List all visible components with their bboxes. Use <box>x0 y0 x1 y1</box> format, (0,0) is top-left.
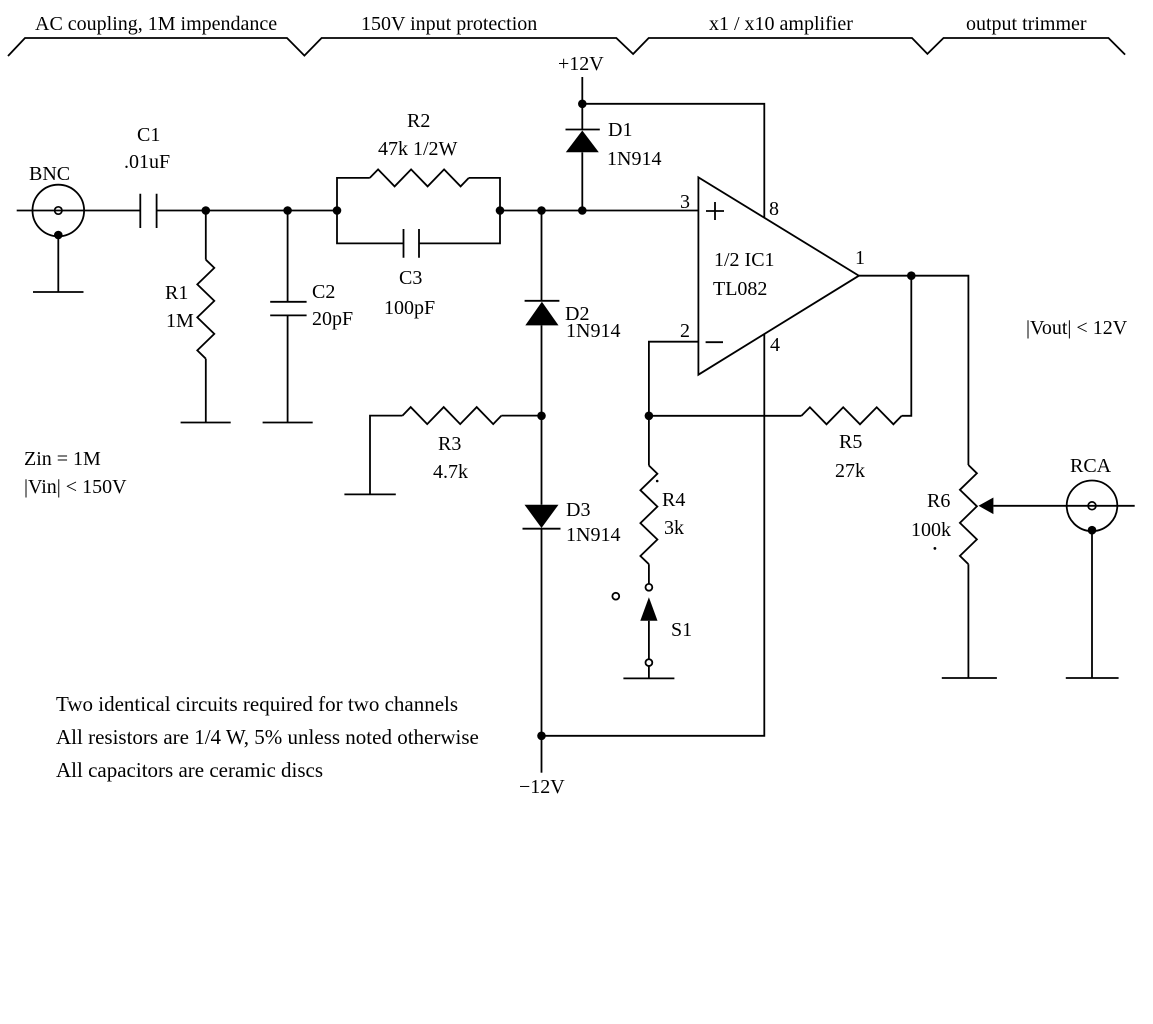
wire wiper to RCA <box>993 505 1134 507</box>
svg-text:−12V: −12V <box>519 776 565 798</box>
svg-text:R3: R3 <box>438 433 461 455</box>
BNC connector <box>33 185 85 240</box>
node H junction (pin2/R4/R5) <box>645 412 654 421</box>
switch S1 bottom contact <box>646 659 653 666</box>
wire D2 to node G <box>541 325 543 415</box>
svg-text:20pF: 20pF <box>312 308 353 330</box>
node G junction (D2/R3/D3) <box>537 412 546 421</box>
resistor R2 <box>370 169 469 186</box>
node B junction (C2 tap) <box>283 206 292 215</box>
wire C2 to ground <box>287 315 289 422</box>
wire node A down to R1 <box>205 211 207 260</box>
ground (S1) <box>623 677 674 679</box>
svg-text:4.7k: 4.7k <box>433 461 468 483</box>
resistor R6 (trimmer) <box>960 465 977 564</box>
svg-text:+12V: +12V <box>558 53 604 75</box>
svg-text:C2: C2 <box>312 281 335 303</box>
stray dot near R4 <box>656 480 659 483</box>
svg-text:2: 2 <box>680 320 690 342</box>
ground (RCA) <box>1066 677 1119 679</box>
svg-text:All capacitors are ceramic dis: All capacitors are ceramic discs <box>56 758 323 782</box>
svg-text:1M: 1M <box>166 310 194 332</box>
svg-text:TL082: TL082 <box>713 278 767 300</box>
svg-text:1/2 IC1: 1/2 IC1 <box>714 249 775 271</box>
svg-text:R6: R6 <box>927 490 950 512</box>
svg-text:AC coupling, 1M impendance: AC coupling, 1M impendance <box>35 13 277 35</box>
wire C3 branch left drop <box>337 211 404 244</box>
svg-text:8: 8 <box>769 198 779 220</box>
op-amp + input marker <box>706 202 724 220</box>
svg-text:output trimmer: output trimmer <box>966 13 1087 35</box>
svg-text:R2: R2 <box>407 110 430 132</box>
switch S1 arrow <box>640 597 657 659</box>
wire D1 to node F <box>581 152 583 210</box>
wire pin 2 to node H <box>649 342 699 416</box>
wire node G down to D3 <box>541 416 543 505</box>
output node junction <box>907 271 916 280</box>
wire R5 up to output node <box>902 276 912 416</box>
diode D2 <box>525 301 560 326</box>
wire op-amp output <box>859 276 969 465</box>
svg-text:S1: S1 <box>671 619 692 641</box>
svg-text:27k: 27k <box>835 460 865 482</box>
op-amp U1 triangle (1/2 IC1 TL082) <box>698 177 859 374</box>
wire R3 to node G <box>501 415 541 417</box>
svg-text:3: 3 <box>680 191 690 213</box>
svg-text:RCA: RCA <box>1070 455 1112 477</box>
wire C3 right drop <box>419 211 500 244</box>
resistor R1 <box>197 260 214 359</box>
svg-text:Zin = 1M: Zin = 1M <box>24 448 101 470</box>
svg-text:3k: 3k <box>664 517 684 539</box>
wire D3 to -12V node <box>541 529 543 736</box>
svg-text:|Vout| < 12V: |Vout| < 12V <box>1026 317 1128 339</box>
node F junction (D1 tap) <box>578 206 587 215</box>
wire +12V node to D1 <box>581 104 583 130</box>
resistor R4 <box>640 466 657 565</box>
wire R6 to ground <box>967 564 969 678</box>
wire +12V rail to pin 8 <box>582 104 764 218</box>
svg-text:BNC: BNC <box>29 163 70 185</box>
wire +12V stub <box>581 77 583 104</box>
R6 wiper arrow <box>979 498 994 515</box>
wire R4 to switch contact <box>648 564 650 584</box>
wire node H down to R4 <box>648 416 650 466</box>
svg-text:1N914: 1N914 <box>566 524 620 546</box>
svg-text:R5: R5 <box>839 431 862 453</box>
ground (BNC) <box>33 291 84 293</box>
wire node H to R5 <box>649 415 802 417</box>
capacitor C3 <box>404 229 420 258</box>
wire R2 right riser <box>469 178 500 211</box>
svg-text:C1: C1 <box>137 124 160 146</box>
ground (C2) <box>263 422 313 424</box>
svg-text:Two identical circuits require: Two identical circuits required for two … <box>56 692 458 716</box>
resistor R3 <box>403 407 502 424</box>
svg-text:D1: D1 <box>608 119 632 141</box>
wire S1 to ground <box>648 666 650 678</box>
ground (R6) <box>942 677 997 679</box>
svg-text:.01uF: .01uF <box>124 151 170 173</box>
svg-text:All resistors are 1/4 W, 5% un: All resistors are 1/4 W, 5% unless noted… <box>56 725 479 749</box>
node -12V junction <box>537 732 546 741</box>
svg-text:100k: 100k <box>911 519 951 541</box>
node A junction (R1 tap) <box>202 206 211 215</box>
wire node B down to C2 <box>287 211 289 302</box>
node E junction (D2 tap) <box>537 206 546 215</box>
wire -12V stub <box>541 736 543 773</box>
node +12V junction <box>578 100 587 109</box>
wire BNC shield to ground <box>57 235 59 292</box>
wire R1 to ground <box>205 359 207 423</box>
stray dot below 100k <box>934 547 937 550</box>
wire node E down to D2 <box>541 211 543 301</box>
capacitor C2 <box>270 302 306 316</box>
wire R3 left leg to ground <box>370 416 403 495</box>
svg-text:x1 / x10 amplifier: x1 / x10 amplifier <box>709 13 853 35</box>
diode D1 <box>566 130 600 153</box>
op-amp - input marker <box>706 341 723 343</box>
svg-text:1: 1 <box>855 247 865 269</box>
svg-text:47k 1/2W: 47k 1/2W <box>378 138 458 160</box>
svg-text:150V input protection: 150V input protection <box>361 13 537 35</box>
svg-text:1N914: 1N914 <box>607 148 661 170</box>
node C junction (R2/C3 left) <box>333 206 342 215</box>
ground (R3) <box>344 493 395 495</box>
capacitor C1 <box>140 194 156 228</box>
wire RCA shield to ground <box>1091 530 1093 678</box>
svg-text:4: 4 <box>770 334 780 356</box>
wire R2 branch left riser <box>337 178 370 211</box>
section divider bracket <box>8 38 1125 56</box>
node D junction (R2/C3 right) <box>496 206 505 215</box>
wire node D to op-amp pin3 <box>500 210 698 212</box>
switch S1 side contact <box>612 593 619 600</box>
wire C1 to node C <box>157 210 337 212</box>
svg-text:|Vin| < 150V: |Vin| < 150V <box>24 476 127 498</box>
svg-text:100pF: 100pF <box>384 297 435 319</box>
svg-text:R4: R4 <box>662 489 685 511</box>
svg-text:R1: R1 <box>165 282 188 304</box>
svg-text:1N914: 1N914 <box>566 320 620 342</box>
diode D3 <box>523 505 561 529</box>
svg-text:C3: C3 <box>399 267 422 289</box>
wire input stub <box>17 210 141 212</box>
resistor R5 <box>802 407 902 424</box>
svg-text:D3: D3 <box>566 499 590 521</box>
RCA connector <box>1067 481 1118 535</box>
switch S1 top contact <box>646 584 653 591</box>
ground (R1) <box>181 422 231 424</box>
wire -12V rail to pin 4 <box>542 334 765 736</box>
